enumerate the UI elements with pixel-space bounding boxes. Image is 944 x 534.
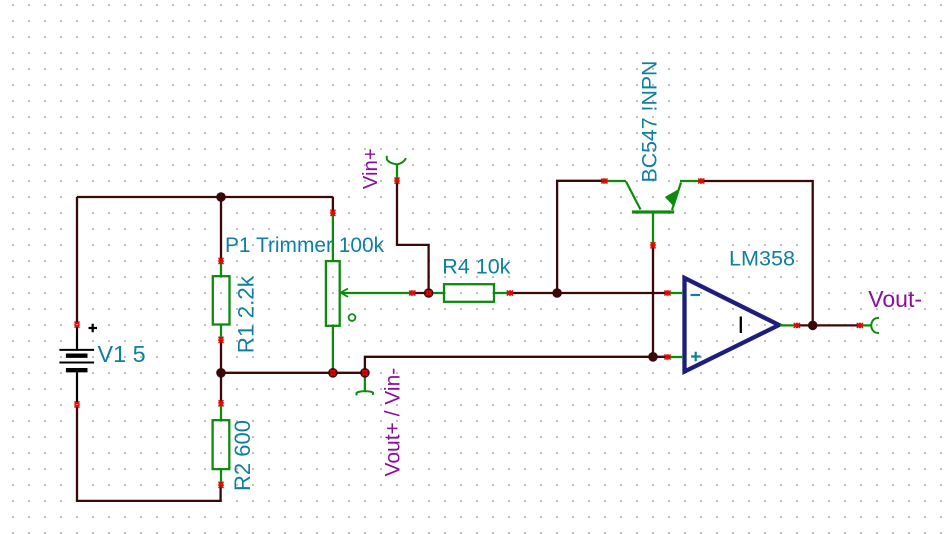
terminal Vout+ / Vin- [356,373,373,395]
pin marker Vout+ terminal [362,370,367,376]
pin marker trimmer top [330,210,335,216]
junction R4 left [424,288,434,298]
svg-text:R2 600: R2 600 [230,420,255,491]
svg-text:Vin+: Vin+ [360,148,382,189]
junction base plus rail [648,352,658,362]
wire top junction down to R1 [220,197,222,261]
op-amp input/output stubs [668,293,798,357]
svg-text:R1 2.2k: R1 2.2k [233,275,258,353]
wire trimmer top stub [332,197,334,213]
resistor R4 [429,284,510,302]
wire Vin+ to R4 junction [397,181,429,293]
junction top rail R1 [216,192,226,202]
wire op-amp output rail [797,324,860,326]
pin marker battery bottom [74,402,79,408]
wire R1 bottom through mid junction to R2 top [220,340,222,404]
pin marker Vin+ terminal [394,178,399,184]
op-amp U1 LM358 [685,278,780,372]
pin marker plus input [665,354,671,359]
pin marker R2 bottom [218,482,223,488]
pin marker minus input [665,290,671,295]
pin marker wiper [409,290,415,295]
wire mid rail [221,372,365,374]
terminal Vout- [860,318,879,333]
pin marker R1 top [218,258,223,264]
wire wiper to R4 junction [412,292,428,294]
junction output [808,321,818,331]
transistor Q1 BC547 [605,181,702,245]
junction Vout+ terminal [360,368,370,378]
trimmer P1 [326,213,412,373]
svg-text:Vout-: Vout- [868,286,922,312]
pin marker Vout- terminal [857,323,863,328]
svg-text:R4 10k: R4 10k [442,255,510,279]
op-amp minus sign [691,294,701,296]
pin marker trimmer bottom [330,370,335,376]
battery V1 [59,324,97,402]
svg-text:P1 Trimmer 100k: P1 Trimmer 100k [225,234,385,257]
wire R4 output to minus input [510,292,668,294]
pin marker R2 top [218,400,223,406]
pin marker base [650,242,655,248]
svg-text:V1 5: V1 5 [98,341,146,367]
op-amp pin mark [740,317,742,334]
pin marker emitter [698,178,704,183]
wire top rail from battery to trimmer [77,196,333,198]
wire plus input rail [365,357,668,373]
pin marker op-amp output [794,323,800,328]
junction collector riser [552,288,562,298]
op-amp plus sign [691,352,701,362]
pin marker R4 left [426,290,432,295]
pin marker R1 bottom [218,337,223,343]
svg-text:Vout+ / Vin-: Vout+ / Vin- [381,368,404,477]
wire collector riser [557,181,604,293]
wire base down to plus rail [652,245,654,356]
junction mid R1 R2 [216,368,226,378]
junction trimmer bottom [328,368,338,378]
resistor R1 [213,261,230,340]
terminal Vin+ [387,156,406,181]
svg-text:LM358: LM358 [729,246,795,271]
pin marker R4 right [507,290,513,295]
svg-text:BC547 !NPN: BC547 !NPN [638,61,662,183]
pin marker collector [602,178,608,183]
wire battery bottom to bottom rail [77,407,221,501]
resistor R2 [213,403,230,485]
wire emitter to output junction [701,181,812,325]
pin marker battery top [74,322,79,328]
wire battery top vertical [76,197,78,323]
